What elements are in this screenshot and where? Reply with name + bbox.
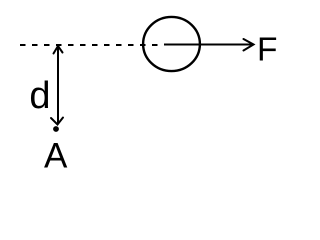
svg-text:F: F <box>257 32 277 69</box>
force arrow shaft <box>164 44 252 46</box>
force arrowhead <box>244 39 254 51</box>
point A dot <box>53 126 59 132</box>
distance arrow shaft <box>57 47 59 124</box>
distance arrowhead up <box>54 46 63 54</box>
dashed reference line <box>20 44 161 46</box>
svg-text:A: A <box>44 137 68 174</box>
svg-text:d: d <box>29 75 50 117</box>
ball (circle) <box>143 17 200 71</box>
distance arrowhead down <box>51 118 63 125</box>
